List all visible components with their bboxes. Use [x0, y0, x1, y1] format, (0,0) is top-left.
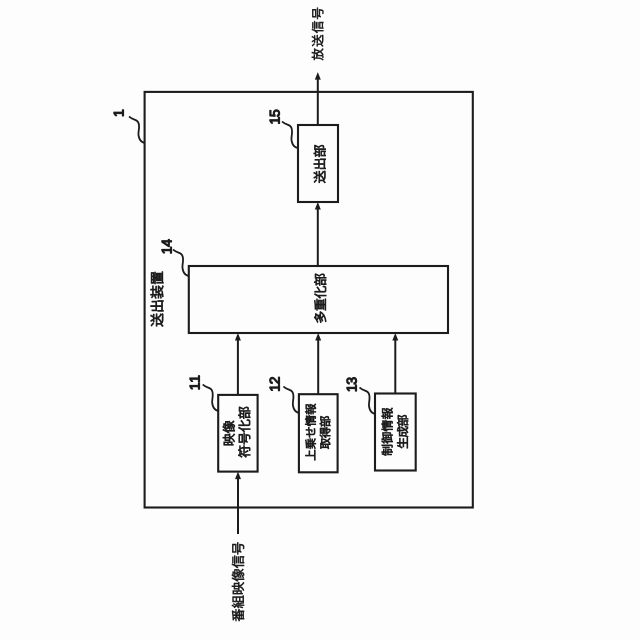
ref numeral 15 — [270, 110, 280, 124]
arrow: 送出部 to 放送信号 output — [315, 72, 321, 125]
arrow: box 13 to 多重化部 — [392, 333, 398, 394]
text 符号化部 — [238, 407, 250, 458]
leader squiggle for 11 — [203, 385, 219, 412]
ref numeral 14 — [162, 239, 172, 253]
ref numeral 11 — [190, 376, 200, 389]
text 送出部 — [314, 145, 326, 183]
text 取得部 — [320, 416, 331, 449]
outer box: 送出装置 transmission apparatus (1) — [145, 92, 473, 508]
box 制御情報生成部 (13) — [375, 394, 416, 471]
leader squiggle for 14 — [173, 250, 189, 277]
box 送出部 sending unit (15) — [298, 125, 338, 202]
ref numeral 13 — [347, 378, 357, 392]
leader squiggle for 12 — [283, 387, 299, 414]
leader squiggle for 13 — [360, 388, 376, 415]
label 放送信号 (broadcast signal) — [312, 8, 324, 61]
arrow: box 12 to 多重化部 — [315, 333, 321, 394]
box 映像符号化部 video encoder (11) — [218, 395, 257, 472]
box 上乗せ情報取得部 (12) — [299, 394, 338, 472]
box 多重化部 multiplexer (14) — [189, 266, 448, 333]
arrow: 番組映像信号 input into box 11 — [235, 472, 241, 534]
text 多重化部 — [314, 274, 326, 323]
arrow: 多重化部 to 送出部 — [315, 202, 321, 266]
label 番組映像信号 (program video signal) — [232, 542, 244, 621]
arrow: box 11 to 多重化部 — [235, 333, 241, 395]
ref numeral 1 — [114, 110, 124, 116]
label 送出装置 (device name) — [151, 272, 164, 327]
text 生成部 — [397, 415, 408, 448]
leader squiggle for 1 — [129, 117, 145, 144]
leader squiggle for 15 — [282, 122, 298, 149]
text 上乗せ情報 — [305, 404, 316, 461]
text 制御情報 — [382, 408, 393, 456]
whole figure drawn upright then rotated 90deg CCW like the scanned sheet — [114, 8, 473, 622]
text 映像 — [223, 421, 235, 446]
ref numeral 12 — [270, 377, 280, 390]
